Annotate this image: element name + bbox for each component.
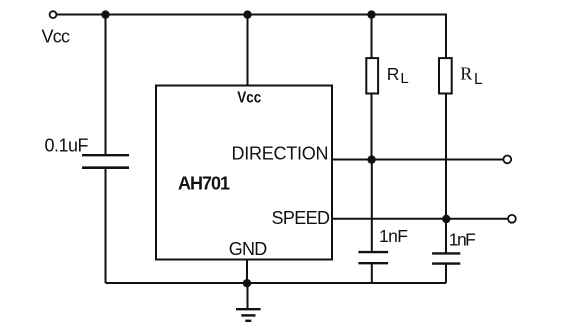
wire: top Vcc rail [57,14,447,16]
svg-text:SPEED: SPEED [272,208,331,228]
wire: GND pin (IC bottom to bottom rail) [246,260,248,284]
pin label Vcc [237,89,261,106]
wire: R2 bottom to SPEED line (crosses DIRECTION line, no junction) [445,94,447,220]
wire: R1 bottom to DIRECTION line [371,94,373,160]
capacitor C2 1nF (plates) [358,252,388,263]
terminal: Vcc input (open circle) [50,11,57,18]
label R_L (second, serif R) [460,63,483,88]
resistor R2 (load, body) [439,58,452,93]
value label 0.1uF [45,136,89,156]
wire: R1 branch upper (rail to R1 top) [371,15,373,59]
op-amp U1 AH701 (IC box) [156,86,332,260]
wire: C2 bottom to bottom rail [371,263,373,283]
label Vcc (supply) [42,26,71,46]
svg-text:Vcc: Vcc [42,26,71,46]
svg-text:R: R [460,63,472,83]
wire: R2 branch upper (rail end down to R2 top) [445,14,447,59]
svg-text:GND: GND [229,239,267,259]
wire: SPEED branch down to C3 [445,219,447,253]
wire: SPEED output line [332,218,508,220]
wire: C3 bottom to bottom rail end [445,264,447,283]
svg-text:AH701: AH701 [178,173,230,193]
svg-text:0.1uF: 0.1uF [45,136,89,156]
value label 1nF (first) [379,226,408,246]
junction: bottom rail / GND pin and ground [243,279,251,287]
wire: left branch lower (C1 bottom to bottom rail) [105,168,107,283]
resistor R1 (load, body) [366,58,378,93]
capacitor C3 1nF (plates) [432,253,460,263]
junction: DIRECTION line / R1-C2 branch [367,155,375,163]
junction: top rail / R1 branch [367,10,375,18]
junction: SPEED line / R2-C3 branch [442,215,450,223]
capacitor C1 0.1uF (plates) [82,155,129,168]
terminal: DIRECTION output (open circle) [503,156,511,164]
label AH701 [178,173,230,193]
svg-text:1nF: 1nF [379,226,408,246]
value label 1nF (second) [449,230,476,250]
svg-text:L: L [400,70,408,87]
svg-text:1nF: 1nF [449,230,476,250]
junction: top rail / C1 branch [101,10,109,18]
wire: left branch upper (rail to C1 top plate) [105,15,107,156]
svg-text:R: R [387,64,400,84]
ground symbol [236,309,261,321]
wire: bottom rail [106,282,447,284]
pin label GND [229,239,267,259]
wire: ground stem [247,283,249,309]
wire: Vcc pin (rail to IC top) [247,15,249,86]
svg-text:L: L [474,71,483,88]
label R_L (first, sans) [387,64,409,87]
terminal: SPEED output (open circle) [508,215,516,223]
pin label DIRECTION [232,143,329,163]
svg-text:Vcc: Vcc [237,89,261,106]
pin label SPEED [272,208,331,228]
svg-text:DIRECTION: DIRECTION [232,143,329,163]
wire: DIRECTION output line [332,159,504,161]
junction: top rail / Vcc pin [243,10,251,18]
wire: DIRECTION branch down to C2 (crosses SPEED line, no junction) [371,160,373,253]
